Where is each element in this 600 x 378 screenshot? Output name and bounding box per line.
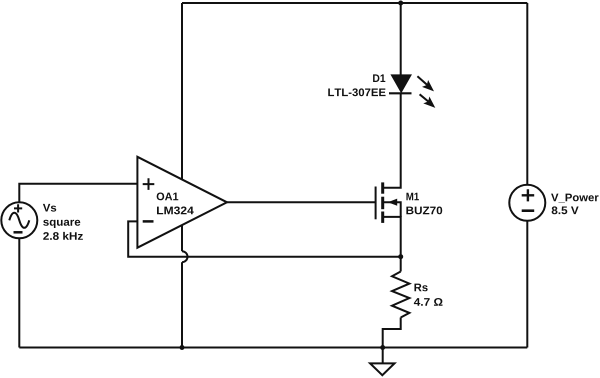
wire resistor bottom to bottom rail	[383, 318, 401, 348]
LED emission arrow 2	[420, 94, 436, 108]
label V_Power value	[552, 206, 579, 214]
label M1 designator	[406, 193, 418, 201]
wire right vertical top (V_Power to top rail)	[526, 3, 528, 185]
wire LED cathode to MOSFET drain	[384, 93, 401, 187]
junction feedback / source / resistor	[398, 254, 403, 259]
wire feedback node to resistor top	[400, 257, 402, 272]
label OA1 part number	[157, 207, 194, 215]
wire hop over feedback	[182, 251, 188, 262]
wire op-amp V+ supply from top rail (upper part)	[181, 3, 183, 180]
label D1 part number	[328, 88, 385, 96]
voltage source V_Power	[509, 185, 545, 221]
label Rs designator	[414, 284, 427, 292]
junction top rail / LED branch	[398, 1, 403, 6]
wire Vs top lead to op-amp + input	[19, 184, 137, 203]
junction bottom rail / resistor / ground	[380, 345, 385, 350]
wire MOSFET body to source	[384, 202, 401, 217]
label D1 designator	[373, 74, 385, 82]
op-amp OA1	[137, 157, 227, 248]
resistor Rs	[392, 272, 409, 318]
wire op-amp V- supply stub from triangle bottom edge	[181, 225, 183, 251]
label V_Power designator	[551, 194, 598, 203]
wire ground stub	[382, 348, 384, 363]
wire MOSFET source to feedback node	[384, 217, 401, 257]
wire op-amp V- supply to bottom rail (lower part)	[181, 262, 183, 347]
ground	[370, 363, 394, 375]
wire top rail to LED anode	[400, 3, 402, 75]
voltage source Vs	[1, 202, 37, 238]
label Rs value	[414, 298, 443, 306]
junction bottom rail / op-amp supply	[180, 345, 185, 350]
wire op-amp output to gate	[227, 201, 376, 203]
wire right vertical bottom (V_Power to bottom rail)	[526, 221, 528, 348]
label Vs designator	[43, 204, 56, 212]
LED emission arrow 1	[417, 76, 434, 91]
wire Vs bottom lead	[18, 238, 20, 347]
label Vs frequency	[43, 232, 83, 240]
label OA1 designator	[157, 193, 179, 201]
wire top rail	[182, 2, 527, 4]
diode D1 (LED)	[389, 75, 412, 93]
wire bottom rail	[19, 347, 527, 349]
label M1 part number	[406, 207, 442, 215]
wire feedback from inverting input to source node	[128, 221, 401, 256]
label Vs type	[43, 220, 80, 228]
transistor M1 (NMOS)	[376, 182, 398, 223]
